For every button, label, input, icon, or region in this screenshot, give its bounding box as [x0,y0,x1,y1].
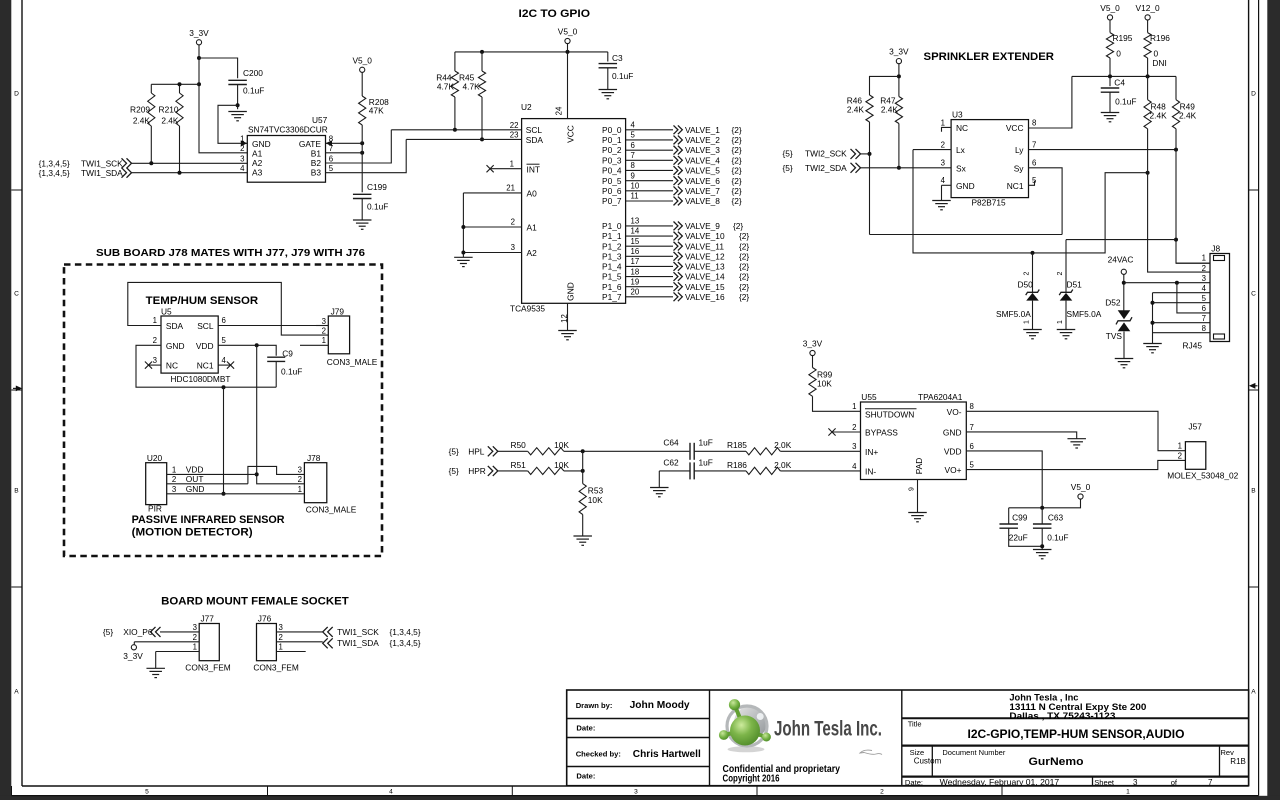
svg-text:5: 5 [970,461,975,470]
svg-text:3_3V: 3_3V [803,339,823,349]
svg-text:R186: R186 [727,460,747,470]
svg-text:3: 3 [279,623,284,632]
svg-text:{2}: {2} [732,196,742,206]
svg-text:{2}: {2} [739,241,749,251]
svg-text:20: 20 [631,288,640,297]
svg-text:8: 8 [970,402,975,411]
svg-text:C4: C4 [1114,78,1125,88]
svg-text:Drawn by:: Drawn by: [576,701,613,710]
svg-text:P1_0: P1_0 [602,221,622,231]
svg-text:1: 1 [941,119,945,128]
svg-text:V12_0: V12_0 [1136,3,1160,13]
svg-text:C99: C99 [1012,513,1028,523]
svg-text:V5_0: V5_0 [352,55,372,65]
svg-text:R195: R195 [1113,33,1133,43]
svg-text:TWI1_SDA: TWI1_SDA [81,168,123,178]
svg-text:TWI2_SDA: TWI2_SDA [805,163,847,173]
svg-text:P82B715: P82B715 [972,197,1007,207]
svg-text:BYPASS: BYPASS [865,428,898,438]
svg-text:3: 3 [852,442,857,451]
svg-text:NC: NC [166,361,178,371]
svg-text:6: 6 [1032,159,1037,168]
svg-text:1: 1 [1178,442,1182,451]
svg-text:2.4K: 2.4K [161,116,179,126]
svg-text:TWI2_SCK: TWI2_SCK [805,149,847,159]
svg-text:HPR: HPR [468,466,486,476]
svg-text:I2C TO GPIO: I2C TO GPIO [519,8,591,20]
svg-text:P1_4: P1_4 [602,262,622,272]
svg-text:2.0K: 2.0K [774,440,792,450]
svg-text:3: 3 [1202,274,1207,283]
svg-text:C199: C199 [367,182,387,192]
svg-text:8: 8 [1032,119,1037,128]
svg-text:10K: 10K [817,379,832,389]
svg-text:Checked by:: Checked by: [576,749,621,758]
svg-text:V5_0: V5_0 [1071,482,1091,492]
svg-text:{2}: {2} [733,221,743,231]
svg-text:TWI1_SCK: TWI1_SCK [81,158,123,168]
svg-text:Custom: Custom [914,756,942,765]
svg-text:PIR: PIR [148,503,162,513]
svg-text:VDD: VDD [196,341,214,351]
svg-text:VDD: VDD [944,447,962,457]
svg-text:0.1uF: 0.1uF [1115,97,1136,107]
svg-text:A2: A2 [252,158,263,168]
svg-text:3: 3 [511,243,516,252]
svg-text:GND: GND [252,139,271,149]
svg-text:{1,3,4,5}: {1,3,4,5} [390,627,421,637]
svg-text:U3: U3 [952,110,963,120]
svg-text:1: 1 [1126,789,1130,796]
svg-text:GND: GND [186,484,205,494]
svg-text:3: 3 [172,485,177,494]
svg-text:7: 7 [1208,778,1213,787]
svg-text:0.1uF: 0.1uF [612,71,633,81]
svg-text:{5}: {5} [449,466,459,476]
svg-text:10K: 10K [554,460,569,470]
svg-text:3: 3 [941,159,946,168]
svg-text:R51: R51 [511,460,527,470]
svg-text:HDC1080DMBT: HDC1080DMBT [171,374,231,384]
svg-text:CON3_MALE: CON3_MALE [306,504,357,514]
svg-text:2: 2 [153,336,157,345]
svg-text:2: 2 [193,633,197,642]
svg-text:R185: R185 [727,440,747,450]
svg-text:{2}: {2} [732,176,742,186]
svg-text:SMF5.0A: SMF5.0A [996,309,1031,319]
svg-text:VALVE_2: VALVE_2 [685,135,720,145]
svg-text:2.0K: 2.0K [774,460,792,470]
svg-text:Ly: Ly [1015,145,1024,155]
svg-text:CON3_MALE: CON3_MALE [327,357,378,367]
svg-text:1: 1 [852,402,856,411]
svg-text:SDA: SDA [166,321,184,331]
svg-text:{2}: {2} [732,166,742,176]
svg-text:{1,3,4,5}: {1,3,4,5} [39,158,70,168]
svg-text:VCC: VCC [1006,123,1024,133]
svg-text:3: 3 [240,154,245,163]
svg-text:VALVE_9: VALVE_9 [685,221,720,231]
svg-text:14: 14 [631,227,640,236]
svg-text:A3: A3 [252,167,263,177]
svg-text:{5}: {5} [783,149,793,159]
svg-text:TWI1_SDA: TWI1_SDA [337,638,379,648]
svg-text:Sheet: Sheet [1094,778,1115,787]
svg-text:2: 2 [941,141,945,150]
svg-text:6: 6 [222,316,227,325]
svg-text:VO-: VO- [947,407,962,417]
svg-text:23: 23 [510,131,519,140]
svg-text:NC: NC [956,123,968,133]
svg-text:4: 4 [631,121,636,130]
svg-text:5: 5 [631,131,636,140]
svg-text:{2}: {2} [739,292,749,302]
svg-text:of: of [1171,778,1178,787]
svg-text:P0_6: P0_6 [602,186,622,196]
svg-text:0.1uF: 0.1uF [281,367,302,377]
svg-text:22uF: 22uF [1009,532,1028,542]
svg-text:3_3V: 3_3V [123,651,143,661]
svg-text:24VAC: 24VAC [1108,254,1134,264]
svg-text:VALVE_7: VALVE_7 [685,186,720,196]
svg-text:C: C [14,290,19,297]
svg-text:VALVE_15: VALVE_15 [685,282,725,292]
svg-text:J57: J57 [1188,422,1202,432]
svg-text:SDA: SDA [526,135,544,145]
svg-text:2: 2 [322,327,326,336]
svg-text:C62: C62 [663,458,679,468]
svg-text:INT: INT [527,165,541,175]
svg-text:{1,3,4,5}: {1,3,4,5} [390,638,421,648]
svg-text:VALVE_13: VALVE_13 [685,262,725,272]
svg-text:1: 1 [240,135,244,144]
svg-text:Date:: Date: [576,724,595,733]
svg-text:U55: U55 [861,392,877,402]
svg-text:{2}: {2} [732,155,742,165]
svg-text:IN-: IN- [865,466,876,476]
svg-text:A: A [14,688,19,695]
svg-text:D: D [1251,90,1256,97]
svg-text:2.4K: 2.4K [1179,111,1197,121]
svg-text:D: D [14,90,19,97]
svg-text:{2}: {2} [732,125,742,135]
svg-text:GND: GND [166,341,185,351]
svg-text:8: 8 [1202,324,1207,333]
svg-text:J77: J77 [201,614,215,624]
svg-text:(MOTION DETECTOR): (MOTION DETECTOR) [132,527,253,539]
svg-text:Lx: Lx [956,145,966,155]
svg-text:{5}: {5} [103,627,113,637]
svg-text:3: 3 [322,317,327,326]
svg-text:{5}: {5} [449,446,459,456]
svg-text:GND: GND [566,282,576,301]
svg-text:2: 2 [1202,264,1206,273]
svg-text:TEMP/HUM SENSOR: TEMP/HUM SENSOR [146,295,259,307]
svg-text:U5: U5 [161,306,172,316]
svg-text:U2: U2 [521,102,532,112]
svg-text:2: 2 [852,423,856,432]
svg-text:D50: D50 [1018,279,1034,289]
svg-text:VALVE_3: VALVE_3 [685,145,720,155]
svg-text:4: 4 [852,462,857,471]
svg-text:C63: C63 [1048,513,1064,523]
svg-text:D52: D52 [1105,298,1121,308]
svg-text:NC1: NC1 [1007,181,1024,191]
svg-text:SMF5.0A: SMF5.0A [1067,309,1102,319]
svg-text:3: 3 [1133,778,1138,787]
svg-text:1: 1 [1024,320,1031,324]
svg-text:VALVE_5: VALVE_5 [685,166,720,176]
svg-text:4: 4 [389,789,393,796]
svg-text:4.7K: 4.7K [463,82,481,92]
svg-text:21: 21 [506,183,515,192]
svg-text:7: 7 [631,151,635,160]
svg-text:P0_2: P0_2 [602,145,622,155]
svg-text:5: 5 [329,164,334,173]
svg-text:16: 16 [631,247,640,256]
svg-text:24: 24 [555,106,564,115]
svg-text:MOLEX_53048_02: MOLEX_53048_02 [1167,470,1238,480]
svg-text:J8: J8 [1211,244,1220,254]
svg-text:P1_5: P1_5 [602,272,622,282]
svg-text:TCA9535: TCA9535 [510,304,545,314]
svg-text:R196: R196 [1150,33,1170,43]
svg-text:D51: D51 [1067,279,1083,289]
svg-text:VALVE_12: VALVE_12 [685,251,725,261]
svg-text:5: 5 [145,789,149,796]
svg-text:2: 2 [1024,271,1031,275]
svg-text:3: 3 [193,623,198,632]
svg-text:C9: C9 [282,349,293,359]
svg-text:VALVE_8: VALVE_8 [685,196,720,206]
svg-text:P1_3: P1_3 [602,251,622,261]
svg-text:{5}: {5} [783,163,793,173]
svg-text:U57: U57 [312,115,328,125]
svg-text:R50: R50 [511,440,527,450]
svg-text:9: 9 [909,487,916,491]
svg-text:TVS: TVS [1106,331,1123,341]
svg-text:6: 6 [329,154,334,163]
svg-text:R210: R210 [159,105,179,115]
svg-text:10K: 10K [554,440,569,450]
svg-text:GurNemo: GurNemo [1029,756,1084,768]
svg-text:GND: GND [943,428,962,438]
svg-text:10: 10 [631,182,640,191]
svg-text:3_3V: 3_3V [189,28,209,38]
svg-text:1: 1 [1202,254,1206,263]
svg-text:HPL: HPL [468,446,485,456]
svg-text:VALVE_11: VALVE_11 [685,241,724,251]
svg-text:R1B: R1B [1230,757,1246,766]
svg-text:4: 4 [941,176,946,185]
svg-text:John Moody: John Moody [630,700,691,711]
svg-text:SHUTDOWN: SHUTDOWN [865,409,914,419]
svg-text:I2C-GPIO,TEMP-HUM SENSOR,AUDIO: I2C-GPIO,TEMP-HUM SENSOR,AUDIO [968,727,1185,741]
svg-text:A1: A1 [252,148,263,158]
svg-text:DNI: DNI [1152,58,1166,68]
svg-text:{2}: {2} [732,135,742,145]
svg-text:GND: GND [956,181,975,191]
svg-text:A: A [1251,688,1256,695]
svg-text:RJ45: RJ45 [1183,341,1203,351]
svg-text:Sy: Sy [1014,163,1025,173]
svg-text:IN+: IN+ [865,447,878,457]
svg-text:5: 5 [222,336,227,345]
svg-text:{2}: {2} [739,262,749,272]
svg-text:SPRINKLER EXTENDER: SPRINKLER EXTENDER [924,51,1055,63]
svg-text:VCC: VCC [566,125,576,143]
svg-text:B: B [14,487,19,494]
svg-text:B3: B3 [311,167,322,177]
svg-text:Document Number: Document Number [942,748,1005,757]
svg-text:6: 6 [631,141,636,150]
svg-text:Sx: Sx [956,163,967,173]
svg-text:C: C [1251,290,1256,297]
svg-text:9: 9 [631,171,635,180]
svg-text:P1_6: P1_6 [602,282,622,292]
svg-text:8: 8 [631,161,636,170]
svg-text:2.4K: 2.4K [133,116,151,126]
svg-text:B: B [1251,487,1256,494]
svg-text:{2}: {2} [739,282,749,292]
svg-text:4: 4 [222,356,227,365]
svg-text:PASSIVE INFRARED SENSOR: PASSIVE INFRARED SENSOR [132,514,285,526]
svg-text:VALVE_16: VALVE_16 [685,292,725,302]
svg-text:0.1uF: 0.1uF [1047,532,1068,542]
svg-text:17: 17 [631,257,640,266]
svg-text:GATE: GATE [299,139,322,149]
svg-text:2.4K: 2.4K [881,105,899,115]
svg-text:P0_7: P0_7 [602,196,622,206]
svg-text:{2}: {2} [739,251,749,261]
svg-text:P0_1: P0_1 [602,135,622,145]
svg-text:John Tesla Inc.: John Tesla Inc. [774,717,882,741]
svg-text:SUB BOARD J78 MATES WITH J77,: SUB BOARD J78 MATES WITH J77, J79 WITH J… [96,248,365,259]
svg-text:Chris Hartwell: Chris Hartwell [633,749,701,760]
svg-text:P1_2: P1_2 [602,241,622,251]
svg-text:TWI1_SCK: TWI1_SCK [337,627,379,637]
svg-text:A0: A0 [527,189,538,199]
svg-text:{2}: {2} [739,272,749,282]
svg-text:{2}: {2} [732,145,742,155]
svg-text:22: 22 [510,121,519,130]
svg-text:18: 18 [631,267,640,276]
svg-text:1: 1 [193,643,197,652]
svg-text:Dallas , TX 75243-1123: Dallas , TX 75243-1123 [1009,711,1115,721]
svg-text:VDD: VDD [186,465,204,475]
svg-text:15: 15 [631,237,640,246]
svg-text:A2: A2 [527,248,538,258]
svg-text:Rev: Rev [1221,748,1235,757]
svg-text:2: 2 [279,633,283,642]
svg-text:P0_4: P0_4 [602,166,622,176]
svg-text:XIO_P6: XIO_P6 [123,627,153,637]
svg-text:B2: B2 [311,158,322,168]
svg-text:U20: U20 [147,453,163,463]
svg-text:C3: C3 [612,53,623,63]
svg-text:P0_3: P0_3 [602,155,622,165]
svg-text:4.7K: 4.7K [437,82,455,92]
svg-text:PAD: PAD [914,458,924,475]
svg-text:V5_0: V5_0 [1100,3,1120,13]
svg-text:4: 4 [240,164,245,173]
svg-text:J79: J79 [331,306,345,316]
svg-text:1uF: 1uF [699,458,713,468]
svg-text:P1_7: P1_7 [602,292,622,302]
svg-text:{1,3,4,5}: {1,3,4,5} [39,168,70,178]
svg-text:1: 1 [298,485,302,494]
svg-text:P1_1: P1_1 [602,231,622,241]
svg-text:47K: 47K [369,106,384,116]
svg-text:2: 2 [880,789,884,796]
svg-text:2: 2 [298,475,302,484]
svg-text:VALVE_10: VALVE_10 [685,231,725,241]
svg-text:2: 2 [1057,271,1064,275]
svg-text:1uF: 1uF [699,438,713,448]
svg-text:TPA6204A1: TPA6204A1 [918,392,963,402]
svg-text:2.4K: 2.4K [847,105,865,115]
svg-text:Copyright 2016: Copyright 2016 [723,774,780,785]
svg-text:{2}: {2} [732,186,742,196]
svg-text:3: 3 [634,789,638,796]
svg-text:4: 4 [1202,284,1207,293]
svg-text:A1: A1 [527,223,538,233]
svg-text:SCL: SCL [526,125,543,135]
svg-text:SN74TVC3306DCUR: SN74TVC3306DCUR [248,125,328,135]
svg-text:1: 1 [1057,320,1064,324]
svg-text:VALVE_4: VALVE_4 [685,155,720,165]
svg-text:CON3_FEM: CON3_FEM [185,663,230,673]
svg-text:11: 11 [631,192,639,201]
svg-text:VALVE_1: VALVE_1 [685,125,720,135]
svg-text:1: 1 [172,466,176,475]
svg-text:7: 7 [1202,314,1206,323]
svg-text:3_3V: 3_3V [889,47,909,57]
svg-text:Date:: Date: [576,772,595,781]
svg-text:J76: J76 [258,614,272,624]
svg-text:BOARD MOUNT FEMALE SOCKET: BOARD MOUNT FEMALE SOCKET [161,595,349,607]
svg-text:19: 19 [631,277,640,286]
svg-text:VO+: VO+ [945,465,962,475]
svg-text:6: 6 [970,442,975,451]
svg-text:V5_0: V5_0 [558,27,578,37]
svg-text:1: 1 [153,316,157,325]
svg-text:C200: C200 [243,68,263,78]
svg-text:R209: R209 [130,105,150,115]
svg-text:7: 7 [1032,141,1036,150]
svg-text:B1: B1 [311,148,322,158]
svg-text:7: 7 [970,423,974,432]
svg-text:SCL: SCL [197,321,214,331]
svg-text:OUT: OUT [186,474,204,484]
svg-text:VALVE_14: VALVE_14 [685,272,725,282]
svg-text:J78: J78 [307,453,321,463]
svg-text:5: 5 [1202,294,1207,303]
svg-text:Title: Title [908,720,922,729]
svg-text:0: 0 [1116,49,1121,59]
svg-text:P0_5: P0_5 [602,176,622,186]
svg-text:13: 13 [631,217,640,226]
svg-text:2.4K: 2.4K [1150,111,1168,121]
svg-text:10K: 10K [588,495,603,505]
svg-text:3: 3 [298,466,303,475]
svg-text:P0_0: P0_0 [602,125,622,135]
svg-text:0.1uF: 0.1uF [367,201,388,211]
svg-text:2: 2 [1178,451,1182,460]
svg-text:C64: C64 [663,438,679,448]
svg-text:3: 3 [153,356,158,365]
svg-text:1: 1 [510,159,514,168]
